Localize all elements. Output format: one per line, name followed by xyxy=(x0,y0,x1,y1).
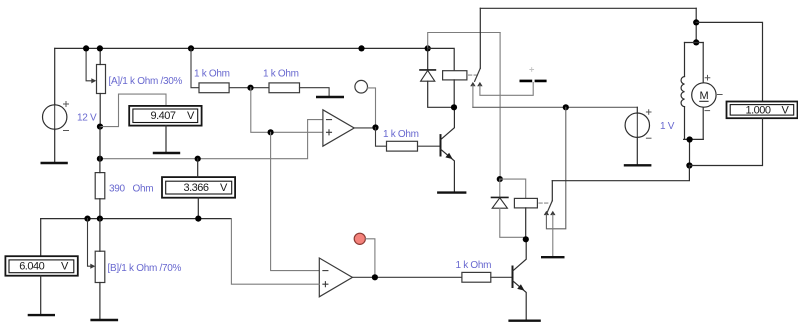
node wiper A bus xyxy=(83,45,89,51)
ground under M1 xyxy=(153,152,180,154)
wire bus to R1 xyxy=(191,48,199,87)
wire R1 to node xyxy=(229,87,269,89)
voltmeter M3 6.040 box xyxy=(5,256,77,276)
node M2 bus xyxy=(195,216,201,222)
wire feedback bus y=158.7 xyxy=(100,120,323,159)
wire node to relay1 coil top xyxy=(428,48,455,70)
svg-text:V: V xyxy=(220,182,228,194)
node R1-R2 xyxy=(247,85,253,91)
resistor R5 390 Ohm body xyxy=(95,173,105,199)
wire 390 top xyxy=(99,159,101,173)
diode D1 xyxy=(420,48,451,107)
wire R2 to ground xyxy=(300,88,330,96)
relay RL2 throw arrows xyxy=(544,211,556,215)
wire bus to M3 xyxy=(40,219,42,257)
relay RL1 contact arm xyxy=(475,68,481,81)
svg-text:1 V: 1 V xyxy=(660,121,675,132)
node riser2 tap xyxy=(563,104,569,110)
svg-text:V: V xyxy=(187,110,195,122)
wire V1 to top bus corner xyxy=(54,48,56,105)
diode D2 xyxy=(492,179,526,237)
ground under pot B xyxy=(90,319,118,321)
voltmeter M2 3.366 box xyxy=(162,177,235,198)
relay RL2 coil xyxy=(500,179,538,239)
wire V1 to ground xyxy=(54,129,56,162)
power supply bars xyxy=(520,68,547,81)
wire lower bus y=218.6 xyxy=(41,218,232,220)
wire junction to op2 minus xyxy=(271,132,320,270)
wire op1 output to R3 xyxy=(376,128,387,147)
battery V2 1V xyxy=(625,107,651,164)
SECTION: right xyxy=(552,8,797,180)
pot A wiper arm xyxy=(86,48,96,83)
wire P2 to op2 output xyxy=(365,239,375,277)
probe P2 red circle xyxy=(354,233,365,244)
wire vm top feed xyxy=(696,22,762,101)
node pot A bottom xyxy=(97,124,103,130)
node motor return xyxy=(686,162,692,168)
svg-text:V: V xyxy=(782,105,790,117)
node bus-390 xyxy=(97,156,103,162)
relay RL2 contact arm xyxy=(547,201,553,214)
wire relay2 right throw to ground xyxy=(552,215,554,256)
relay RL2 link dashes xyxy=(539,202,550,204)
voltmeter M4 1.000 box xyxy=(727,102,798,119)
svg-text:M: M xyxy=(700,90,709,102)
node relay1 coil bottom / Q1 collector xyxy=(451,104,457,110)
relay RL2 contact common xyxy=(551,181,553,201)
relay RL1 throw arrows xyxy=(470,82,482,86)
wire relay2 riser x=500 xyxy=(499,33,501,180)
wire node to op1 plus xyxy=(251,88,323,133)
transistor Q2 xyxy=(513,239,527,319)
wire pot A bottom to bus xyxy=(99,127,101,159)
node top vm tap xyxy=(693,19,699,25)
pot A bottom stub xyxy=(99,94,101,127)
relay RL1 coil xyxy=(443,71,467,108)
wire M1 to ground xyxy=(165,126,167,152)
wire node up-over to relay2 riser xyxy=(428,33,500,49)
resistor R4 1k body xyxy=(462,272,491,282)
ground under Q1 xyxy=(437,191,466,193)
wire op1 output xyxy=(354,127,375,129)
relay RL1 contact common xyxy=(479,8,481,68)
wire voltmeter M1 tap xyxy=(100,94,166,127)
wire relay2 left throw to 1V line xyxy=(546,107,565,229)
potentiometer A body xyxy=(97,65,106,94)
node 390-potB xyxy=(97,216,103,222)
node pot A top xyxy=(97,45,103,51)
svg-text:1 k Ohm: 1 k Ohm xyxy=(194,69,230,80)
pot A top stub xyxy=(99,48,101,64)
svg-text:1.000: 1.000 xyxy=(746,105,771,117)
SECTION: middle xyxy=(188,45,541,320)
wire R3 to Q1 base xyxy=(418,145,440,147)
wire motor bottom xyxy=(689,139,691,165)
resistor R2 1k body xyxy=(269,83,300,93)
ground under Q2 xyxy=(508,320,540,322)
wire R4 to Q2 base xyxy=(491,276,512,278)
battery V1 12V circle xyxy=(43,102,69,131)
potentiometer B body xyxy=(95,251,105,282)
node op2 output xyxy=(372,274,378,280)
ground under V2 xyxy=(624,164,652,166)
wire top bus y=8.3 xyxy=(480,7,696,9)
wire V1 through-line xyxy=(54,104,56,130)
op-amp U1 xyxy=(323,110,354,146)
svg-text:1 k Ohm: 1 k Ohm xyxy=(456,260,492,271)
ground right of R2 xyxy=(316,96,344,98)
pot B wiper arm xyxy=(88,219,96,269)
motor M frame xyxy=(684,43,704,140)
transistor Q1 xyxy=(441,107,455,191)
pot B top stub xyxy=(99,219,101,252)
wire relay1 right throw to supply xyxy=(480,83,533,96)
node main bus right end xyxy=(425,45,431,51)
wire top bus y=48.4 xyxy=(55,47,428,49)
resistor R3 1k body xyxy=(387,141,418,151)
wire vm bottom return xyxy=(689,118,762,165)
motor M circle xyxy=(692,75,722,110)
node relay2 diode top xyxy=(497,176,503,182)
node bus-R1 xyxy=(188,45,194,51)
svg-text:1 k Ohm: 1 k Ohm xyxy=(263,69,299,80)
svg-text:[A]/1 k Ohm /30%: [A]/1 k Ohm /30% xyxy=(109,76,183,87)
node op1 plus junction xyxy=(268,129,274,135)
resistor R1 1k body xyxy=(199,83,229,93)
ground under M3 xyxy=(28,314,55,316)
wire motor return to relay2 common xyxy=(552,166,689,181)
node op1 output xyxy=(372,124,378,130)
svg-text:V: V xyxy=(61,260,69,272)
ground under relay2 xyxy=(541,256,565,258)
node wiper B bus xyxy=(84,216,90,222)
svg-text:9.407: 9.407 xyxy=(151,110,176,122)
wire M2 top xyxy=(197,159,199,177)
svg-text:12 V: 12 V xyxy=(77,113,97,124)
wire relay1 left throw to 1V line xyxy=(472,86,474,108)
wire motor branch top xyxy=(695,8,697,42)
probe P1 circle xyxy=(355,80,368,93)
wire M3 to ground xyxy=(40,276,42,314)
op-amp U2 xyxy=(319,258,352,297)
wire pot B to ground xyxy=(99,283,101,319)
svg-text:3.366: 3.366 xyxy=(184,182,209,194)
svg-text:[B]/1 k Ohm /70%: [B]/1 k Ohm /70% xyxy=(108,263,182,274)
wire lower bus to op2 plus xyxy=(231,219,319,285)
node relay2 coil bottom / Q2 collector xyxy=(523,236,529,242)
svg-text:1 k Ohm: 1 k Ohm xyxy=(383,129,419,140)
svg-text:6.040: 6.040 xyxy=(19,260,44,272)
wire M2 bottom xyxy=(197,198,199,219)
wire op2 output xyxy=(352,276,462,278)
inductor winding xyxy=(681,77,684,107)
ground under V1 xyxy=(41,162,68,164)
SECTION: left xyxy=(5,45,427,320)
wire P1 to op1 output xyxy=(368,88,376,128)
SECTION: relays xyxy=(420,8,696,257)
node motor top xyxy=(693,39,699,45)
voltmeter M1 9.407 box xyxy=(129,106,201,126)
node bus-M2 xyxy=(195,156,201,162)
node motor bottom xyxy=(687,136,693,142)
node stray on bus xyxy=(358,45,364,51)
wire 1V plus line y=107.3 xyxy=(473,106,637,108)
relay RL1 link dashes xyxy=(469,74,479,76)
wire 390 bottom xyxy=(99,199,101,219)
